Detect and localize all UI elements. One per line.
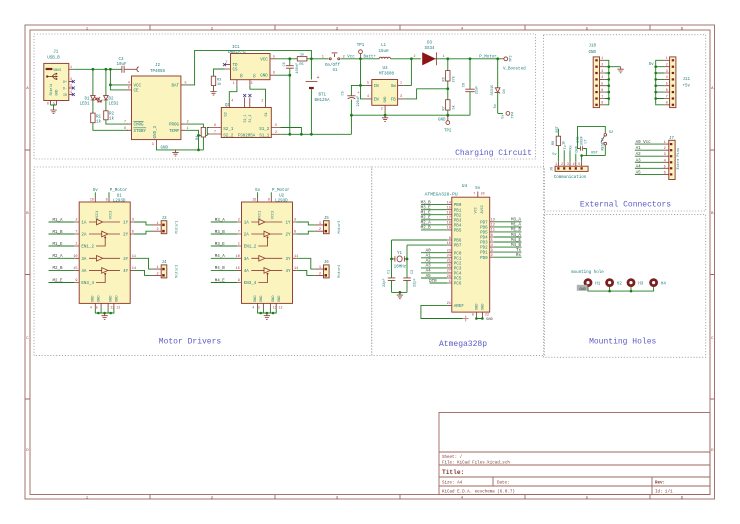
svg-text:8: 8 [472,312,474,316]
svg-text:J5: J5 [324,217,330,221]
svg-text:TD: TD [233,64,239,68]
switch S2 RESET [578,126,614,155]
wire VCC rail dw01 [276,58,297,60]
svg-text:TP4056: TP4056 [150,70,166,74]
node junctions J11 [654,65,657,68]
IC IC1 DW01A-G [225,46,277,86]
svg-text:2: 2 [381,107,383,111]
svg-text:M2_B: M2_B [421,227,432,231]
svg-text:M2_A: M2_A [52,255,63,259]
svg-text:7: 7 [666,94,668,98]
wire J10 to ground [609,66,621,68]
svg-text:IC1: IC1 [232,46,240,50]
wire xtal2 [407,245,447,278]
wire Q1 source links [199,128,210,136]
svg-text:4A: 4A [81,270,87,274]
svg-text:1: 1 [443,54,445,58]
svg-text:M4_A: M4_A [215,255,226,259]
svg-text:PB3: PB3 [454,219,462,223]
svg-text:J4: J4 [162,261,168,265]
connector J7 Extra Pins [664,137,681,180]
svg-text:R6: R6 [442,77,446,81]
svg-text:7: 7 [473,192,475,196]
IC J2 TP4056 [124,64,189,146]
svg-text:A0 Vcc: A0 Vcc [636,141,652,145]
svg-text:VCC1: VCC1 [96,211,100,220]
svg-text:OC: OC [252,74,256,78]
pin 4 ID no-connect [69,94,74,96]
wire AREF to gnd [421,305,466,318]
svg-text:5: 5 [273,54,275,58]
IC U3 MT3608 [366,67,404,111]
svg-text:3: 3 [251,81,253,85]
svg-text:FB: FB [391,99,397,103]
svg-text:1: 1 [322,55,324,59]
svg-text:U4: U4 [462,183,468,189]
hole H1 [584,278,593,287]
svg-text:2: 2 [319,228,321,232]
svg-text:VCC2: VCC2 [272,211,276,220]
svg-text:GND: GND [272,296,276,302]
svg-text:PD0: PD0 [480,257,488,261]
svg-text:BH125A: BH125A [315,99,331,103]
svg-text:12: 12 [279,305,283,309]
svg-text:1: 1 [187,126,189,130]
svg-text:M1_A: M1_A [52,219,63,223]
wire U1 gnd bus [95,309,114,314]
svg-text:Rev:: Rev: [655,482,665,486]
svg-text:8: 8 [106,198,108,202]
svg-text:PROG: PROG [169,124,180,128]
svg-text:220uF: 220uF [357,96,361,107]
svg-text:2: 2 [157,272,159,276]
resistor R5 1k [297,52,311,67]
svg-text:S2: S2 [609,131,613,135]
svg-text:5v: 5v [475,187,481,191]
svg-text:M1_B: M1_B [52,231,63,235]
svg-text:6: 6 [273,71,275,75]
svg-text:Vcc: Vcc [347,56,355,60]
node junction C6 top [288,57,291,60]
svg-text:4: 4 [491,244,493,248]
svg-text:5k: 5k [451,105,456,109]
svg-text:1Y: 1Y [285,222,291,226]
wire P_Motor to U2 VCC2 [270,192,272,197]
svg-text:1k: 1k [217,82,221,87]
hole H3 [627,278,636,287]
svg-text:5: 5 [96,305,98,309]
svg-text:1k: 1k [109,116,115,121]
node junction y1 right [406,258,409,261]
wire U2 gnd bus [258,309,277,314]
node junction TP1 [359,57,362,60]
svg-text:BT1: BT1 [319,94,327,98]
connector J6 Motor4 [296,258,342,278]
svg-text:M2_E: M2_E [421,217,432,221]
connector J4 Motor2 [134,258,180,278]
IC U2 L293D [236,195,299,310]
svg-text:3: 3 [601,69,603,73]
capacitor C8 22uF [462,59,479,115]
connector J11 +5v header [664,56,690,108]
svg-text:PB1: PB1 [454,209,462,213]
wire main gnd rail [351,114,470,116]
svg-text:VCC2: VCC2 [109,211,113,220]
svg-text:+: + [357,91,360,96]
resistor R7 5k [442,89,456,115]
svg-text:GND: GND [92,296,96,302]
svg-text:7: 7 [214,130,216,134]
wire U4 left rows [421,205,447,283]
svg-text:Rx: Rx [570,145,574,149]
wire VBUS rail [73,68,121,70]
svg-text:L293D: L293D [113,200,126,204]
svg-text:EN3_4: EN3_4 [81,282,94,286]
svg-text:S2_2: S2_2 [223,134,234,138]
svg-text:Motor3: Motor3 [337,221,342,234]
wire boost output rail [448,58,498,60]
wire J8 pin5 RST [581,156,583,162]
svg-text:Motor Drivers: Motor Drivers [159,338,222,347]
svg-text:5: 5 [258,305,260,309]
battery BT1 BH125A [306,59,330,135]
wire J11 bus [656,60,665,105]
svg-text:GND_3: GND_3 [154,125,158,138]
svg-text:4: 4 [573,162,575,166]
svg-text:5: 5 [275,123,277,127]
wire RST rail [582,155,606,157]
wire J7 rows [635,144,664,174]
svg-text:7: 7 [75,231,77,235]
svg-text:+: + [317,75,320,81]
node junction u4 gnd [475,317,478,320]
svg-text:2: 2 [561,162,563,166]
svg-text:PD3: PD3 [480,242,488,246]
section box Charging Circuit [34,34,536,159]
svg-text:EN1_2: EN1_2 [81,246,94,250]
svg-text:27k: 27k [451,76,456,82]
svg-text:GND: GND [110,296,114,302]
svg-text:2A: 2A [81,234,87,238]
svg-text:1: 1 [75,243,77,247]
svg-text:D+: D+ [63,80,67,84]
wire rail up to gnd rail [350,115,352,134]
svg-text:J1: J1 [53,50,59,54]
svg-text:SS34: SS34 [424,47,435,51]
wire DW01 gnd to C6 [276,74,290,76]
svg-text:V_Boosted: V_Boosted [503,66,526,71]
capacitor C3 10uF [116,58,138,73]
node junction VCC feed [109,84,112,87]
svg-text:FS8205A: FS8205A [238,134,256,138]
capacitor C5 220uF [341,85,360,115]
wire J10 bus [605,60,609,105]
IC U1 L293D [73,195,136,310]
svg-text:3: 3 [567,162,569,166]
svg-text:File: KiCad Files.kicad_sch: File: KiCad Files.kicad_sch [442,461,510,466]
wire J8 pin2 Tx [563,150,565,162]
svg-text:G2: G2 [225,112,229,116]
svg-text:2: 2 [664,147,666,151]
svg-text:1: 1 [666,56,668,60]
svg-text:6: 6 [601,88,603,92]
svg-text:9: 9 [238,279,240,283]
wire 5v to VCC1 [94,192,96,197]
svg-text:D-: D- [63,87,67,91]
svg-text:DTR: DTR [429,280,437,284]
ground U3 [382,115,388,121]
svg-text:M2_E: M2_E [52,279,63,283]
svg-text:4Y: 4Y [123,270,129,274]
svg-text:5: 5 [367,81,369,85]
svg-text:6: 6 [664,171,666,175]
transistor Q1 FS8205A [209,98,280,139]
svg-text:GND: GND [260,75,268,79]
switch S1 On/Off [311,53,379,73]
svg-text:LED1: LED1 [79,102,90,106]
connector J10 GND header [589,45,605,108]
svg-text:3: 3 [132,219,134,223]
svg-text:IN: IN [374,85,380,89]
svg-text:PC3: PC3 [454,268,462,272]
svg-text:2: 2 [414,54,416,58]
svg-text:8: 8 [268,198,270,202]
svg-text:3A: 3A [81,258,87,262]
test point TP4 [498,112,516,119]
svg-text:RESET1: RESET1 [601,138,605,151]
ground U1 [101,313,107,319]
svg-text:L1: L1 [381,44,387,48]
pins 5 6 shield gnd [51,101,57,106]
svg-text:R4: R4 [196,136,200,140]
pin 3 D+ no-connect [69,81,74,83]
svg-text:A1: A1 [636,147,642,151]
svg-text:VCC: VCC [260,58,268,62]
svg-text:S1_2: S1_2 [248,115,252,123]
wire xtal1 [392,240,448,278]
svg-text:1: 1 [70,65,72,69]
svg-text:GND: GND [383,97,387,103]
svg-text:9: 9 [449,237,451,241]
svg-text:Size: A4: Size: A4 [442,481,463,486]
pin 2 D- no-connect [69,87,74,89]
svg-text:J6: J6 [324,261,330,265]
wire U3 gnd [384,111,386,115]
svg-text:16: 16 [90,198,94,202]
node junction VBUS-D1 [92,68,95,71]
svg-text:3A: 3A [244,258,250,262]
svg-text:R5: R5 [299,63,303,67]
svg-text:L293D: L293D [275,200,288,204]
svg-text:PB6: PB6 [454,240,462,244]
svg-text:Sw: Sw [391,85,397,89]
svg-text:TP1: TP1 [357,44,365,48]
svg-text:3: 3 [666,69,668,73]
ground below J1 [50,108,56,114]
svg-text:6: 6 [47,102,49,106]
svg-text:8: 8 [666,101,668,105]
svg-text:A5: A5 [636,171,642,175]
svg-text:Communication: Communication [554,175,587,180]
svg-text:1: 1 [157,222,159,226]
svg-text:M4_B: M4_B [215,267,226,271]
node junction Sw [410,57,413,60]
buffer gates inside [89,219,120,225]
svg-text:P_Motor: P_Motor [479,55,497,59]
svg-text:P_Motor: P_Motor [110,189,128,193]
node junction temp-q1 [197,134,200,137]
svg-text:PC2: PC2 [454,262,462,266]
svg-text:G1: G1 [265,112,269,116]
svg-text:4: 4 [601,75,603,79]
svg-text:DW01A-G: DW01A-G [228,51,246,55]
svg-text:U1: U1 [117,195,123,199]
svg-text:PD2: PD2 [480,247,488,251]
wire VCC/CE feed [110,69,126,90]
svg-text:PC0: PC0 [454,252,462,256]
svg-text:M2_B: M2_B [52,267,63,271]
svg-text:22pF: 22pF [413,278,417,287]
svg-text:R1: R1 [96,115,102,119]
svg-text:TEMP: TEMP [169,130,180,134]
svg-text:A2: A2 [426,260,432,264]
resistor R4 prog [185,124,205,150]
svg-text:5: 5 [664,165,666,169]
svg-text:Mounting Holes: Mounting Holes [589,338,656,347]
svg-text:GND: GND [54,90,58,96]
wire BAT to top rail [185,50,311,85]
svg-text:2: 2 [75,219,77,223]
svg-text:C1: C1 [387,270,391,274]
ground TP4056 [172,150,178,156]
node junction FB [446,87,449,90]
svg-text:2: 2 [666,63,668,67]
svg-text:Atmega328p: Atmega328p [439,340,487,349]
svg-text:Motor2: Motor2 [175,265,180,278]
wire xtal gnd rail [392,291,408,293]
svg-text:2: 2 [261,99,263,103]
wire battery to IN/EN [361,59,366,99]
ground xtal [397,293,403,299]
svg-text:16MHz: 16MHz [394,266,407,270]
LED D1 [79,69,99,106]
svg-text:+5v: +5v [683,85,691,89]
svg-text:PC1: PC1 [454,257,462,261]
svg-text:4Y: 4Y [285,270,291,274]
svg-text:CHRG: CHRG [134,124,145,128]
svg-text:GND: GND [98,296,102,302]
svg-text:2: 2 [157,228,159,232]
connector J8 Communication [551,162,589,180]
svg-text:1k: 1k [561,141,566,145]
svg-text:6: 6 [132,231,134,235]
node junction y1 left [390,258,393,261]
svg-text:PD1: PD1 [480,252,488,256]
svg-text:AREF: AREF [454,305,465,309]
svg-text:7: 7 [601,94,603,98]
svg-text:RST: RST [556,125,560,132]
svg-text:GND: GND [482,304,486,310]
node label GND holes [577,285,588,291]
svg-text:A3: A3 [426,265,432,269]
section box Motor Drivers [34,167,372,356]
svg-text:8: 8 [601,101,603,105]
svg-text:J8: J8 [551,167,555,171]
svg-text:6: 6 [214,123,216,127]
svg-text:Sheet: /: Sheet: / [442,455,463,460]
svg-text:H1: H1 [595,283,601,287]
capacitor C7 100nF + DTR [576,133,588,156]
ground J10 [617,67,623,73]
svg-text:1A: 1A [244,222,250,226]
svg-text:1: 1 [233,81,235,85]
node junction battery top [310,57,313,60]
node junction TP3 branch [496,57,499,60]
svg-text:3Y: 3Y [123,258,129,262]
svg-text:GND: GND [116,296,120,302]
svg-text:ATMEGA328-PU: ATMEGA328-PU [425,192,458,198]
svg-text:C8: C8 [462,83,466,87]
svg-text:External Connectors: External Connectors [580,201,671,210]
wire battery minus rail [280,128,351,135]
svg-text:VCC: VCC [475,207,479,213]
svg-text:C6: C6 [283,62,287,66]
svg-text:20: 20 [481,192,485,196]
svg-text:PC6: PC6 [454,283,462,287]
svg-text:1: 1 [555,162,557,166]
svg-text:M3_B: M3_B [421,201,432,205]
svg-text:Motor4: Motor4 [337,265,342,278]
svg-text:2: 2 [275,130,277,134]
title block [439,413,710,495]
svg-text:VCC1: VCC1 [258,211,262,220]
power flag cross [463,316,469,322]
svg-text:1: 1 [319,222,321,226]
svg-text:AVCC: AVCC [481,205,485,214]
svg-text:1: 1 [400,81,402,85]
wire U1 input rows [49,222,75,283]
svg-text:GND: GND [486,318,492,322]
svg-text:CE: CE [134,90,140,94]
svg-text:Id: 1/1: Id: 1/1 [655,490,673,495]
svg-text:TP2: TP2 [444,130,452,134]
svg-text:6: 6 [491,234,493,238]
node junction RST [580,154,583,157]
node junction VBUS-D2 [105,68,108,71]
inductor L1 15uH [378,44,411,59]
svg-text:2: 2 [319,272,321,276]
resistor R3 1k [211,69,224,89]
svg-text:2A: 2A [244,234,250,238]
test point TP3 [498,56,514,62]
ground R3 [210,89,216,95]
resistor R8 1k [552,129,566,146]
svg-text:OD: OD [239,74,243,78]
hole H4 [649,278,658,287]
resistor R1 1k [91,100,128,130]
svg-text:3: 3 [400,94,402,98]
wire TEMP to gnd [185,130,198,150]
no-connect TD [223,63,226,66]
svg-text:M4_E: M4_E [215,279,226,283]
svg-text:EN3_4: EN3_4 [244,282,257,286]
crystal Y1 16MHz [392,252,408,269]
svg-text:Motor1: Motor1 [175,221,180,234]
svg-text:3Y: 3Y [285,258,291,262]
svg-text:Tx: Tx [564,145,568,149]
svg-text:S1: S1 [332,69,338,73]
svg-text:Batt+: Batt+ [364,56,377,60]
